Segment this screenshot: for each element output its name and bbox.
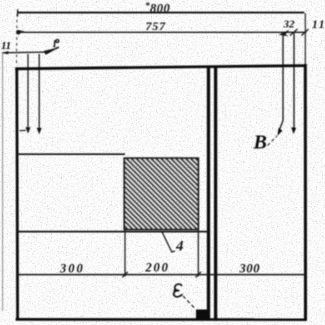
leader line R2 with down arrow [293,33,295,129]
interior wall double line left [207,67,210,321]
tick at 125 [122,272,127,278]
bracket right arrow [44,47,60,55]
dashed leader to black square [183,296,196,309]
room divider line lower [16,231,208,233]
leader line L1 with down arrow [27,54,29,128]
leader line R1 (В) bent with arrow [278,33,283,133]
leader to label 4 [162,232,175,252]
label *800 [145,1,171,16]
extension line below hatch right [197,230,199,277]
label Е [174,284,182,297]
room divider line upper [16,153,125,155]
dim arrow left [16,30,21,35]
main left border [15,67,19,320]
main bottom border [16,318,307,321]
dim arrow mid cluster [279,30,290,37]
small prime mark [56,40,59,43]
dashed leader to label В [268,136,278,146]
dimension line 757-32-11 [16,31,306,33]
page fold faint left edge line [2,53,4,311]
bottom dimension line [16,274,305,276]
main right border [304,13,306,65]
left bracket dimension line [2,51,50,54]
dashed extension line at left border top [16,14,19,66]
main top border [15,66,306,69]
dimension 800 left end tick [17,9,19,16]
black filled square detail [196,310,210,320]
extension line below hatch left [124,230,126,277]
interior wall double line right [214,66,217,321]
hatched square [124,158,198,229]
leader line L2 with down arrow [38,54,40,129]
dim arrow right end [302,29,309,36]
tick at 198 [196,272,201,278]
bracket left arrow [2,51,8,54]
dimension line 800 (top) [18,12,305,14]
